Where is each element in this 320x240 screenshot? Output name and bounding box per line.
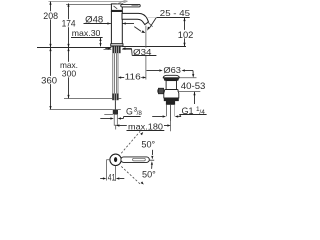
svg-text:Ø48: Ø48	[85, 14, 103, 24]
flange top extension line	[180, 77, 197, 79]
svg-text:208: 208	[43, 11, 58, 21]
label 50 deg upper	[141, 138, 155, 159]
dimension 360 line	[40, 48, 58, 110]
svg-text:50°: 50°	[141, 138, 155, 149]
dimension G1 1/4 pipe arrows	[152, 115, 181, 117]
label G1 1/4 underlined	[179, 106, 206, 117]
deck line left	[37, 47, 111, 49]
extension line lever-top	[66, 4, 121, 6]
dimension 102 line	[177, 18, 194, 47]
label max.30 underlined	[71, 28, 103, 38]
dimension 208 line	[43, 1, 60, 47]
svg-text:40-53: 40-53	[181, 81, 206, 91]
drain centerline	[170, 105, 172, 132]
hose end fitting A	[112, 94, 118, 101]
faucet cap	[111, 4, 122, 12]
dimension max.30 drop arrow	[99, 38, 101, 47]
supply hoses	[113, 53, 118, 93]
raised lever ghost	[117, 1, 128, 5]
label Ø63 with arrows	[147, 65, 195, 77]
aerator face extension	[147, 22, 152, 27]
drain mounting nut	[164, 90, 179, 102]
lever pin	[114, 157, 117, 162]
dimension max.180	[116, 122, 171, 132]
stream leader left arrow	[134, 27, 145, 33]
deck line left lower	[104, 49, 112, 51]
hose ref line A	[64, 98, 112, 100]
faucet centerline	[115, 44, 117, 47]
label G 3/8 underlined with pipe arrows	[100, 107, 142, 120]
lever bar	[121, 4, 140, 7]
svg-text:25 - 45: 25 - 45	[160, 8, 190, 18]
fitting B lower ref line	[104, 114, 113, 116]
svg-text:/8: /8	[137, 110, 143, 117]
hose end fitting B	[113, 109, 118, 114]
top view lever	[121, 157, 154, 163]
shank and mounting nut	[112, 46, 120, 53]
deck line right	[122, 46, 186, 48]
faucet base	[111, 44, 123, 47]
extension line lever-top raised	[49, 1, 126, 3]
drain flange	[163, 75, 179, 81]
label 50 deg lower	[142, 161, 156, 180]
svg-text:max.30: max.30	[72, 28, 101, 38]
label 25 - 45 underlined	[148, 8, 191, 18]
swivel dashed line lower	[121, 166, 144, 184]
dimension 40-53	[178, 81, 206, 104]
stream leader right arrow	[147, 18, 156, 31]
svg-text:41: 41	[108, 173, 116, 183]
faucet body	[111, 11, 122, 43]
deck line right lower	[122, 49, 131, 51]
drain side port	[157, 88, 163, 94]
drain upper body	[166, 81, 176, 90]
svg-text:174: 174	[62, 19, 76, 29]
drain tailpipe	[166, 101, 175, 116]
svg-text:360: 360	[41, 76, 57, 86]
swivel dashed line upper	[121, 131, 143, 153]
hose ref line B	[50, 109, 113, 111]
hose nipple	[114, 100, 116, 109]
dimension max.300 line	[59, 48, 79, 99]
top view circle	[110, 154, 121, 165]
svg-text:102: 102	[178, 30, 194, 40]
svg-text:300: 300	[62, 68, 77, 78]
dimension 174 line	[61, 3, 77, 47]
svg-text:50°: 50°	[142, 169, 156, 180]
dimension 116	[118, 72, 147, 82]
svg-text:Ø63: Ø63	[163, 65, 181, 75]
svg-text:G: G	[126, 107, 133, 117]
label Ø48 underlined with arrows	[84, 14, 135, 24]
faucet lower centerline	[115, 125, 117, 129]
spout	[122, 13, 149, 24]
svg-text:116: 116	[125, 72, 141, 82]
stream extension line	[145, 26, 147, 80]
G3/8 pipe	[114, 114, 117, 125]
label Ø34 with arrows	[105, 47, 156, 57]
dimension 41	[100, 160, 124, 183]
